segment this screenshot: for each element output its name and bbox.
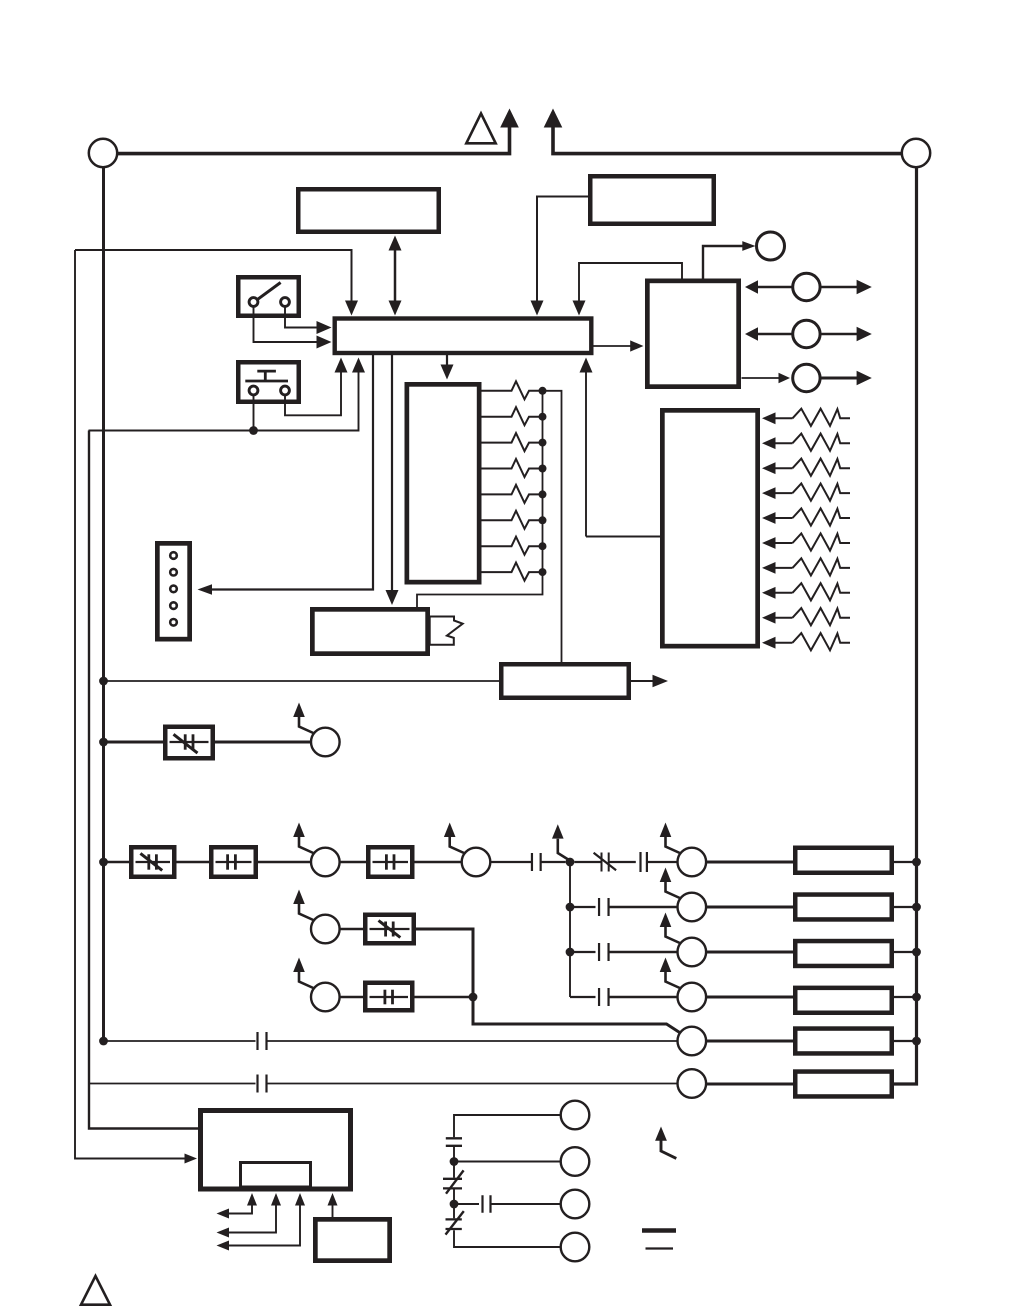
wire: RY3 to right rail bbox=[894, 951, 917, 953]
output line 3 with jack P4 bbox=[742, 364, 872, 391]
node: R3 junction bbox=[539, 439, 547, 447]
resistor R9 bbox=[762, 409, 850, 426]
wire: C9 to junction bbox=[415, 996, 474, 998]
wire: S2 left contact down to node bbox=[253, 396, 255, 431]
wire: chain seg3 bbox=[453, 1190, 455, 1205]
node: R2 junction bbox=[539, 413, 547, 421]
wire: row E seg2 bbox=[609, 996, 678, 998]
jack K8 with actuation arrow bbox=[293, 890, 339, 944]
resistor R2 bbox=[482, 407, 543, 425]
wire: K8 to CF3 bbox=[340, 928, 363, 931]
node: junction row B column with actuation arrow bbox=[552, 824, 574, 866]
block U8 (power/jack unit) bbox=[201, 1111, 351, 1190]
wire: ladder top to U7 bbox=[543, 391, 562, 662]
node: top-right terminal circle bbox=[902, 139, 930, 167]
wire: U8 output b bbox=[217, 1193, 282, 1238]
wire: left rail (from top-left terminal down) bbox=[102, 167, 105, 1041]
wire: row C seg2 bbox=[609, 906, 678, 908]
wire: row B seg5 bbox=[415, 861, 462, 864]
jack K4 with actuation arrow bbox=[660, 823, 706, 877]
node: R1 junction bbox=[539, 387, 547, 395]
resistor R10 bbox=[762, 434, 850, 451]
capacitor C1 (boxed) bbox=[211, 847, 256, 877]
resistor R15 bbox=[762, 558, 850, 575]
capacitor C7 bbox=[599, 943, 609, 961]
wire: row F seg1 bbox=[104, 1040, 256, 1042]
wire: S1 pole to BUS bbox=[254, 308, 332, 349]
node: junction left rail / U7 bbox=[99, 677, 108, 686]
jack K9 with actuation arrow bbox=[293, 958, 339, 1012]
wire: row D seg2 bbox=[609, 951, 678, 953]
resistor R14 bbox=[762, 533, 850, 550]
block RY2 bbox=[795, 895, 892, 920]
block U9 (inner module of U8) bbox=[241, 1163, 311, 1188]
jack B1 (terminal) bbox=[561, 1101, 590, 1130]
node: junction bent path bbox=[469, 993, 478, 1002]
switch S1 (slide switch box) bbox=[238, 277, 299, 316]
torn ribbon flag bbox=[430, 617, 463, 645]
resistor R18 bbox=[762, 633, 850, 650]
block RY4 bbox=[795, 988, 892, 1013]
resistor R3 bbox=[482, 433, 543, 451]
node: junction column row D bbox=[566, 948, 575, 957]
wire: chain seg4 to B4 bbox=[454, 1230, 561, 1247]
node: junction left rail row B bbox=[99, 858, 108, 867]
wire: U8 output c bbox=[217, 1193, 306, 1251]
node: junction left rail row F bbox=[99, 1037, 108, 1046]
wire: column row B down bbox=[569, 862, 571, 997]
wire: CF1 to jack K1 bbox=[215, 741, 311, 744]
block U1 (top display box) bbox=[298, 189, 439, 232]
switch S2 (pushbutton box) bbox=[238, 362, 299, 402]
wire: resistor ladder common rail bbox=[417, 391, 543, 607]
capacitor C13 (crossed series) bbox=[443, 1162, 464, 1194]
wire: chain to C14 bbox=[454, 1203, 479, 1205]
capacitor C6 bbox=[599, 898, 609, 916]
wire: B1 to chain bbox=[454, 1115, 561, 1137]
node: junction right rail row D bbox=[912, 948, 921, 957]
block U2 (top-right box) bbox=[590, 176, 714, 224]
capacitor C14 bbox=[483, 1195, 491, 1213]
wire: U8 output a bbox=[217, 1193, 258, 1219]
wire: row B seg3 bbox=[258, 861, 311, 864]
wire: C14 to B3 bbox=[491, 1203, 561, 1205]
wire: S1 throw to BUS bbox=[285, 308, 332, 335]
block U3 (tall key-matrix box) bbox=[407, 384, 479, 582]
node: R8 junction bbox=[539, 568, 547, 576]
resistor R12 bbox=[762, 484, 850, 501]
wire: row B seg2 bbox=[177, 861, 210, 864]
wire: K9 to C9 bbox=[340, 996, 363, 998]
block RY3 bbox=[795, 941, 892, 966]
jack K11 bbox=[678, 1027, 707, 1056]
resistor R13 bbox=[762, 508, 850, 525]
io line 2 with jack P3 bbox=[745, 320, 872, 347]
capacitor CF3 (crossed, boxed) bbox=[365, 915, 414, 944]
node: junction right rail row E bbox=[912, 993, 921, 1002]
capacitor C2 (boxed) bbox=[368, 847, 412, 877]
wire: RY1 to right rail bbox=[894, 861, 917, 863]
block U10 (battery box) bbox=[315, 1219, 389, 1260]
wire: BUS down to block U6 bbox=[386, 355, 399, 605]
jack K7 with actuation arrow bbox=[660, 958, 706, 1012]
jack P1 (round connector) bbox=[757, 232, 785, 260]
node: junction right rail row F bbox=[912, 1037, 921, 1046]
wire: U10 to U8 bbox=[328, 1193, 338, 1217]
wire: row D to RY3 bbox=[706, 951, 793, 954]
resistor R6 bbox=[482, 511, 543, 529]
capacitor CF1 (crossed, boxed) bbox=[165, 727, 213, 759]
wire: row B to RY1 bbox=[706, 861, 793, 864]
wire: chain to B2 bbox=[454, 1161, 561, 1163]
wire: row B seg4 bbox=[340, 861, 366, 864]
capacitor C15 (crossed series) bbox=[446, 1204, 464, 1235]
wire: left rail to U7 bbox=[104, 680, 500, 682]
node: junction chain B2 bbox=[450, 1157, 459, 1166]
wire: U7 output arrow bbox=[631, 675, 668, 687]
resistor R16 bbox=[762, 583, 850, 600]
block BUS (long horizontal register box) bbox=[335, 319, 592, 354]
capacitor C8 bbox=[599, 988, 609, 1006]
node: junction chain B3 bbox=[450, 1200, 459, 1209]
capacitor C3 bbox=[532, 853, 541, 871]
jack K12 bbox=[678, 1069, 707, 1098]
wire: U4 to jack P1 bbox=[703, 241, 756, 278]
block RY1 bbox=[795, 848, 892, 873]
wire: left branch into BUS top bbox=[75, 250, 358, 316]
block U4 (control box upper-right) bbox=[647, 281, 738, 387]
jack K6 with actuation arrow bbox=[660, 913, 706, 967]
resistor R17 bbox=[762, 608, 850, 625]
wire: chain seg2 bbox=[453, 1147, 455, 1162]
wire: row F seg2 bbox=[267, 1040, 678, 1042]
capacitor C4 (crossed) bbox=[574, 853, 635, 872]
wire: top rail right segment with up arrow bbox=[544, 109, 902, 154]
node: junction column row C bbox=[566, 903, 575, 912]
resistor R7 bbox=[482, 537, 543, 555]
wire: row E seg1 bbox=[570, 996, 596, 998]
jack K3 with actuation arrow bbox=[444, 823, 490, 877]
wire: right rail (from top-right terminal down to relay row 6) bbox=[894, 167, 917, 1084]
resistor R8 bbox=[482, 563, 543, 581]
wire: BUS down to connector J1 bbox=[198, 355, 374, 595]
wire: row E to RY4 bbox=[706, 996, 793, 999]
wire: row A left bbox=[104, 741, 164, 744]
wire: BUS to U4 (right) bbox=[594, 340, 644, 351]
block U5 (key scan box lower-right) bbox=[662, 410, 757, 646]
warning triangle symbol bbox=[466, 114, 495, 144]
power symbol legend bbox=[642, 1231, 676, 1249]
wire: row B seg1 bbox=[104, 861, 130, 864]
node: R6 junction bbox=[539, 516, 547, 524]
node: R4 junction bbox=[539, 465, 547, 473]
wire: U2 to BUS bbox=[531, 197, 589, 316]
jack B3 (terminal) bbox=[561, 1190, 590, 1219]
capacitor C11 bbox=[258, 1075, 267, 1093]
jack K5 with actuation arrow bbox=[660, 868, 706, 922]
wire: row G seg2 bbox=[267, 1083, 678, 1085]
resistor R1 bbox=[482, 381, 543, 399]
wire: row B seg6 bbox=[490, 861, 532, 863]
wire: RY2 to right rail bbox=[894, 906, 917, 908]
wire: S2 right contact to BUS bbox=[285, 358, 348, 416]
capacitor C9 (boxed) bbox=[365, 983, 412, 1011]
wire: pushbutton net down to U8 bbox=[89, 431, 198, 1129]
node: top-left terminal circle bbox=[89, 139, 117, 167]
connector J1 (5-pin header) bbox=[157, 543, 189, 639]
resistor R5 bbox=[482, 485, 543, 503]
jack B2 (terminal) bbox=[561, 1147, 590, 1176]
node: junction right rail 1 bbox=[912, 858, 921, 867]
wire: pushbutton net to BUS bbox=[89, 358, 366, 431]
wire: RY4 to right rail bbox=[894, 996, 917, 998]
node: junction left rail row A bbox=[99, 738, 108, 747]
node: R7 junction bbox=[539, 542, 547, 550]
wire: left branch down to U8 (arrow) bbox=[75, 250, 197, 1164]
wire: row G to RY6 bbox=[706, 1083, 793, 1086]
io line 1 with jack P2 bbox=[745, 273, 872, 300]
wire: U4 top to BUS bbox=[573, 263, 683, 316]
resistor R4 bbox=[482, 459, 543, 477]
wire: RY5 to right rail bbox=[894, 1040, 917, 1042]
block U7 (wide low box) bbox=[501, 664, 629, 698]
warning triangle symbol (footnote) bbox=[81, 1276, 110, 1305]
node: R5 junction bbox=[539, 490, 547, 498]
capacitor C10 bbox=[258, 1032, 267, 1050]
wire: U5 to BUS bbox=[580, 358, 661, 537]
actuation arrow legend bbox=[655, 1127, 676, 1159]
wire: row D seg1 bbox=[570, 951, 596, 953]
wire: top rail left segment with up arrow bbox=[117, 109, 519, 154]
block U6 (box with torn ribbon) bbox=[312, 609, 427, 653]
wire: CF3 bent path to jack K11 bbox=[416, 929, 680, 1033]
wire: row G seg1 bbox=[89, 1083, 256, 1085]
wire: BUS down to block U3 bbox=[441, 355, 454, 380]
capacitor CF2 (crossed, boxed) bbox=[131, 847, 174, 877]
resistor R11 bbox=[762, 459, 850, 476]
jack K1 with actuation arrow bbox=[293, 703, 339, 757]
capacitor C5 bbox=[641, 852, 678, 872]
block RY6 bbox=[795, 1072, 892, 1097]
jack K2 with actuation arrow bbox=[293, 823, 339, 877]
node: junction right rail row C bbox=[912, 903, 921, 912]
block RY5 bbox=[795, 1029, 892, 1054]
node: junction pushbutton net bbox=[249, 426, 258, 435]
wire: row B seg7 bbox=[541, 861, 566, 863]
wire: row C to RY2 bbox=[706, 906, 793, 909]
wire: bidirectional bus link U1-BUS bbox=[389, 236, 402, 316]
capacitor C12 (series) bbox=[446, 1138, 462, 1146]
wire: row C seg1 bbox=[570, 906, 596, 908]
wire: row F to RY5 bbox=[706, 1040, 793, 1043]
jack B4 (terminal) bbox=[561, 1233, 590, 1262]
